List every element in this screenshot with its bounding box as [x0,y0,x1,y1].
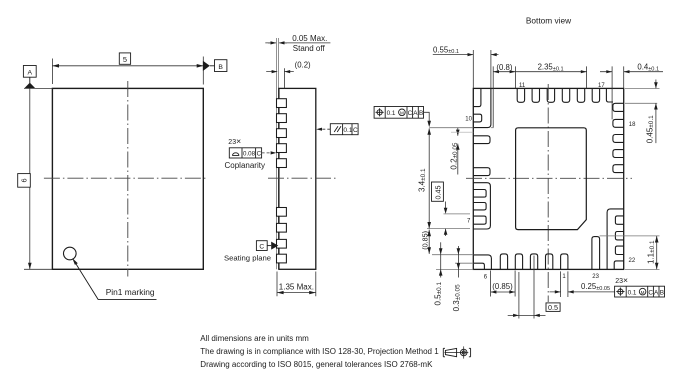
dimension 1.1 [656,236,658,270]
dimension 3.4 [428,128,430,228]
boxed 5 label [119,53,130,64]
datum A arrow [29,77,31,83]
svg-text:C: C [648,289,653,296]
svg-text:B: B [419,110,423,117]
dimension 0.55 [433,54,499,56]
svg-text:C: C [353,127,358,134]
svg-text:0.1: 0.1 [628,289,637,296]
bottom-right corner region [607,209,624,270]
svg-text:A: A [28,70,33,77]
svg-text:Seating plane: Seating plane [224,253,271,262]
vertical centerline [127,81,129,277]
svg-text:C: C [259,243,264,250]
leader / dimension for boxed 0.45 [445,202,447,237]
svg-text:Coplanarity: Coplanarity [225,161,265,170]
svg-text:Bottom view: Bottom view [526,16,572,26]
dimension 5 line [52,65,203,67]
terminal 10 [473,114,481,122]
pin number labels [465,83,636,280]
left terminals (2 pads) [473,136,490,144]
svg-text:0.5: 0.5 [548,303,558,312]
extension line y=213.9 [444,213,471,215]
dimension 6 line [29,88,31,269]
package body outline (top view) [52,88,203,269]
seating plane datum arrow [267,245,271,247]
dimension 0.2 (left pad) [457,128,459,175]
svg-text:0.45: 0.45 [433,186,442,200]
dimension 1.35 Max. [277,272,316,297]
bottom edge extension (right) [625,268,660,270]
dimension 0.05 Max. (stand off) [265,42,330,44]
svg-text:M: M [400,111,404,116]
position tolerance frame (left) [374,107,423,119]
dimension 0.4 [600,71,663,73]
corner terminal 17 step [606,88,613,102]
top edge extension to datum A [24,87,52,89]
svg-text:0.05 Max.: 0.05 Max. [292,34,327,43]
datum B arrow [203,61,210,71]
svg-text:Pin1 marking: Pin1 marking [106,287,155,297]
svg-text:C: C [257,151,262,158]
right terminals 18-21 [613,119,624,172]
leader from parallelism frame [322,128,331,130]
extension line y=263.2 [455,262,473,264]
extension lines for (0.8) / 2.35 / 0.4 [493,66,624,127]
dimension (0.85) left [428,230,430,254]
boxed 6 label (rotated) [18,174,31,188]
extension line y=127.7 [429,127,473,129]
coplanarity feature control frame [229,148,261,158]
horizontal centerline [466,177,632,179]
svg-text:17: 17 [598,83,605,89]
datum A box [23,66,36,78]
pin 1 index circle [64,247,77,260]
top-left corner pad [473,88,491,127]
center exposed pad [516,128,587,230]
dimension (0.85) bottom [491,271,515,297]
bottom terminals 5-1 [500,254,568,270]
package outline (bottom view) [473,88,623,269]
top-left corner notch [473,88,481,106]
svg-text:M: M [641,290,645,295]
parallelism feature control frame // 0.1 C [330,124,358,135]
left large terminal region [473,183,490,229]
corner terminal 17 pad segment [613,103,624,111]
svg-text:A: A [413,110,418,117]
first angle projection symbol [443,346,470,358]
dimension 2.35 [515,71,586,73]
top terminals 11-16 [517,88,599,102]
svg-text:0.08: 0.08 [243,151,256,158]
pad 1 extension lines [561,271,568,297]
horizontal centerline [44,177,208,179]
svg-text:B: B [660,289,664,296]
svg-text:18: 18 [629,122,636,128]
svg-text:(0.8): (0.8) [496,63,512,72]
vertical centerline [547,84,549,302]
svg-text:22: 22 [629,258,636,264]
bottom edge extension line [24,268,52,270]
position tolerance frame (bottom right) [615,286,665,297]
bottom-right squares (incl terminal 22) [615,216,623,255]
dimension 5 extension lines [52,57,203,85]
bottom-left corner pad 6 [473,255,491,270]
svg-text:(0.2): (0.2) [295,60,311,69]
svg-text:C: C [408,110,413,117]
dimension 0.3 (corner notch height) [457,246,459,278]
top edge extension (right) [625,87,660,89]
boxed 0.45 (rotated) [432,182,444,201]
lead width extension line [283,68,285,88]
extension line y=103.3 (corner pad 17) [625,102,657,104]
dimension 0.45 (right) [655,80,657,144]
leader from position frame [424,112,430,122]
dimension 0.55 extension lines [473,50,491,88]
side view terminal pads [277,99,287,263]
extension line from pad 23 top [600,235,660,237]
bottom edge extension (left) [436,268,473,270]
extension line y=228.6 [427,228,470,230]
bottom-right corner notch [614,261,624,270]
side view body outline [279,88,316,269]
leader from coplanarity frame [262,152,272,154]
dimension (0.2) [266,71,294,73]
dimension 0.25 [550,291,615,293]
svg-text:A: A [654,289,659,296]
svg-text:1.35 Max.: 1.35 Max. [279,283,314,292]
extension line y=254.7 [432,254,473,256]
bottom-left corner notch [473,263,484,269]
svg-text:5: 5 [123,55,127,64]
svg-text:0.1: 0.1 [387,110,396,117]
svg-text:B: B [218,64,223,71]
terminal 23 (long pad) [592,237,600,270]
svg-text:All dimensions are in units mm: All dimensions are in units mm [200,334,309,343]
svg-text:Stand off: Stand off [293,44,326,53]
svg-text:Drawing according to ISO 8015,: Drawing according to ISO 8015, general t… [200,360,433,369]
datum B box [215,60,227,72]
lead flank lines [277,38,279,269]
svg-text:The drawing is in compliance w: The drawing is in compliance with ISO 12… [200,347,439,356]
dimension 0.5 (pitch, boxed) [519,256,534,319]
svg-text:(0.85): (0.85) [421,231,430,250]
dimension 0.5 (corner pad height) [440,242,442,277]
terminals 9,8,7 squares [473,190,486,225]
svg-text:23: 23 [592,274,599,280]
svg-text:10: 10 [465,116,472,122]
svg-text:(0.85): (0.85) [492,282,513,291]
svg-text:6: 6 [20,178,29,182]
svg-text:11: 11 [519,83,526,89]
datum C box [256,241,267,251]
leader to Pin1 marking [75,262,157,300]
svg-text:0.1: 0.1 [343,127,352,134]
dimension (0.8) [493,71,515,73]
side view centerline [268,177,336,179]
